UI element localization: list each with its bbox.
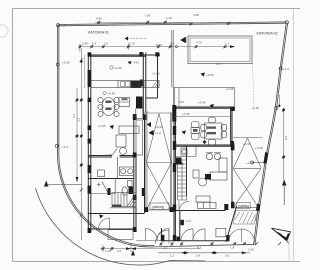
svg-text:KATOIKIA 01: KATOIKIA 01	[88, 31, 109, 35]
svg-text:4.95: 4.95	[178, 100, 184, 104]
svg-text:+0.45: +0.45	[104, 153, 112, 157]
svg-text:+0.90: +0.90	[155, 125, 163, 129]
svg-text:4.60: 4.60	[96, 17, 102, 21]
svg-text:1.10: 1.10	[166, 16, 172, 20]
svg-text:pool: pool	[216, 62, 222, 66]
svg-text:4.2: 4.2	[197, 245, 202, 249]
svg-text:2.50: 2.50	[248, 248, 254, 252]
svg-text:5.60: 5.60	[156, 43, 162, 47]
svg-text:3.0: 3.0	[225, 254, 230, 258]
svg-text:parking: parking	[153, 205, 164, 209]
svg-text:1.2: 1.2	[170, 254, 175, 258]
svg-text:+0.45: +0.45	[226, 87, 234, 91]
svg-text:6.4: 6.4	[72, 113, 76, 118]
svg-text:4.6: 4.6	[61, 24, 66, 28]
svg-text:+2.3: +2.3	[62, 145, 68, 149]
svg-text:2.4: 2.4	[196, 254, 201, 258]
svg-text:+0.45: +0.45	[198, 101, 206, 105]
svg-text:4.50: 4.50	[133, 61, 139, 65]
svg-text:3.2: 3.2	[77, 117, 81, 122]
svg-text:2.6: 2.6	[104, 42, 109, 46]
svg-text:2.6: 2.6	[170, 42, 175, 46]
svg-text:1.1: 1.1	[225, 42, 230, 46]
svg-text:1.45: 1.45	[105, 249, 111, 253]
svg-text:+1.35: +1.35	[252, 106, 260, 110]
svg-text:1.4: 1.4	[92, 42, 97, 46]
svg-text:2.60: 2.60	[140, 244, 146, 248]
svg-text:+0.45: +0.45	[152, 72, 160, 76]
svg-text:2.90: 2.90	[82, 42, 88, 46]
svg-text:+1.2: +1.2	[155, 131, 161, 135]
svg-text:8.5: 8.5	[284, 135, 288, 140]
svg-text:2.40: 2.40	[225, 21, 231, 25]
svg-text:+0.45: +0.45	[114, 66, 122, 70]
svg-text:+1.2: +1.2	[283, 67, 289, 71]
svg-text:+1.95: +1.95	[255, 146, 263, 150]
svg-text:+0.9: +0.9	[185, 219, 191, 223]
svg-text:2.0: 2.0	[117, 249, 122, 253]
svg-text:3.5: 3.5	[163, 245, 168, 249]
svg-text:4.70: 4.70	[196, 41, 202, 45]
svg-text:+1.50: +1.50	[243, 142, 251, 146]
svg-text:+0.45: +0.45	[98, 124, 106, 128]
svg-text:3.10: 3.10	[129, 42, 135, 46]
svg-text:4.25: 4.25	[193, 13, 199, 17]
svg-text:+2.18: +2.18	[246, 161, 254, 165]
svg-text:7.95: 7.95	[145, 14, 151, 18]
svg-text:+0.45: +0.45	[108, 92, 116, 96]
svg-text:1.8: 1.8	[230, 245, 235, 249]
svg-text:KATOIKIA 02: KATOIKIA 02	[257, 32, 278, 36]
svg-text:+0.00: +0.00	[62, 61, 70, 65]
svg-text:+0.50: +0.50	[206, 73, 214, 77]
svg-text:parking: parking	[239, 204, 250, 208]
svg-text:+0.45: +0.45	[182, 112, 190, 116]
